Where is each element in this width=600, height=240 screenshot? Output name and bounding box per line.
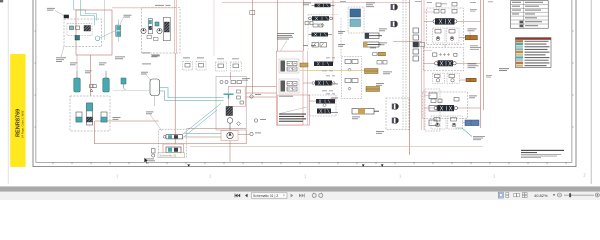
- toolbar background: [0, 192, 600, 200]
- label tank: [141, 72, 148, 75]
- svg-text:Schematic 01 | Z: Schematic 01 | Z: [253, 194, 278, 198]
- wire to pilot trunks: [393, 41, 422, 43]
- label aux cluster: [146, 112, 162, 132]
- quick coupler block: [378, 52, 386, 56]
- sheet inner border frame: [36, 0, 572, 162]
- station 3 pilot caps: [431, 98, 459, 103]
- relay valve inner box: [67, 24, 92, 36]
- relief bank valve 1: [312, 81, 335, 86]
- relay valve group box: [64, 19, 102, 47]
- page right edge: [590, 0, 592, 184]
- label relay valve: [47, 8, 55, 11]
- layout two-up icon: [514, 193, 520, 196]
- steering valve 1: [312, 4, 335, 8]
- top-left viewport corner: [0, 0, 3, 2]
- station 3 sub box b: [448, 116, 463, 129]
- label cylinder 1: [379, 29, 387, 32]
- relay drain gray wire: [104, 0, 106, 40]
- pump feed from charging box: [112, 7, 174, 9]
- border side ticks: [34, 31, 573, 127]
- label acc pump gp: [56, 57, 66, 62]
- coupler tan 1: [365, 69, 379, 74]
- toolbar prev-page button: [245, 194, 248, 198]
- return trunk pair x481: [481, 0, 484, 128]
- aux cluster valve 2: [166, 147, 181, 153]
- toolbar first-page button: [235, 194, 240, 198]
- brake spool left: [76, 112, 82, 122]
- manifold 2 feed wires: [424, 63, 481, 80]
- station 1 sub box b: [447, 28, 459, 43]
- valve column dashed enclosure: [308, 15, 338, 51]
- svg-text:1': 1': [583, 173, 586, 178]
- solenoid column labels: [322, 58, 335, 95]
- layout continuous icon: [506, 193, 509, 198]
- pilot shutoff small valve: [121, 78, 126, 84]
- relay spool: [84, 26, 91, 32]
- pilot supply trunk wire: [251, 0, 253, 94]
- label column mid: [338, 31, 345, 47]
- station 2 pilot caps: [432, 53, 457, 56]
- orifice chain: [413, 28, 419, 61]
- layout two-up-continuous icon: [522, 193, 527, 198]
- pilot valve group 2: [345, 79, 358, 91]
- signal wire x333: [332, 0, 334, 63]
- station 1 main spool: [433, 18, 457, 24]
- zoom out button: [558, 193, 562, 197]
- relay solenoid b: [76, 26, 80, 30]
- sheet note block: [521, 150, 564, 158]
- return trunk wire: [276, 0, 278, 51]
- inline fitting on pilot trunk: [250, 11, 255, 15]
- supply trunk wire x303: [302, 0, 304, 51]
- label connectors: [183, 57, 204, 60]
- label station 2: [468, 64, 479, 69]
- relay label marker box: [64, 15, 69, 19]
- brake small parts: [237, 90, 244, 104]
- pilot manifold dashed box: [341, 57, 361, 99]
- label station 3: [469, 96, 477, 99]
- steering valve 2: [309, 16, 333, 20]
- relief settings lower box: [278, 95, 310, 125]
- label charging boxes: [142, 53, 160, 65]
- relief valve group 2: [279, 79, 299, 93]
- station 2 sub box a: [432, 73, 444, 83]
- charge pump feeds: [185, 132, 222, 134]
- parts table: [511, 1, 549, 29]
- brake shuttle circle: [227, 118, 233, 124]
- drive motor 2: [391, 21, 398, 27]
- cylinder 4: [352, 109, 379, 115]
- relief bank valve 3: [317, 109, 331, 114]
- note text block center: [277, 33, 294, 51]
- svg-text:Schematic 01: Schematic 01: [160, 153, 177, 157]
- port node 1: [250, 95, 253, 98]
- station 2 sub box b: [447, 73, 459, 83]
- steering valve 3: [309, 33, 333, 37]
- bottom-left aux cluster enclosure: [159, 129, 187, 157]
- label 13a 13b: [303, 44, 316, 47]
- accumulator 2: [105, 71, 107, 78]
- coupler tan 2: [366, 87, 380, 92]
- cylinder 1: [365, 33, 382, 39]
- return line bottom run: [94, 121, 246, 144]
- fan motor box: [386, 98, 409, 130]
- station 2 main spool: [435, 60, 457, 66]
- label pump top: [155, 4, 171, 7]
- station 1 coupler tan: [465, 35, 477, 39]
- aux station box right: [425, 89, 440, 131]
- pump control valve: [148, 19, 152, 34]
- label cylinder 4: [352, 117, 360, 120]
- pilot trunk pair x422: [422, 0, 425, 130]
- drive motor 1: [391, 4, 398, 10]
- pump small fittings: [147, 36, 158, 41]
- pump pressure riser: [174, 53, 176, 144]
- hydraulic tank: [150, 79, 160, 96]
- relief bank wires: [303, 83, 336, 101]
- color legend table: [516, 38, 552, 68]
- check valve pair left: [312, 43, 327, 48]
- pump teal port: [155, 22, 159, 26]
- pilot valve group 1: [345, 60, 358, 72]
- label priority: [366, 3, 375, 8]
- pilot trunk fitting: [420, 43, 425, 47]
- label port nodes: [255, 94, 266, 133]
- priority valve lower box: [350, 19, 361, 27]
- toolbar rotate-ccw button: [312, 192, 316, 197]
- station 2 coupler tan: [466, 78, 476, 81]
- label cylinder 2: [379, 43, 387, 46]
- label near drain: [473, 136, 485, 140]
- sheet zone numerals: [116, 173, 586, 179]
- label fan box: [376, 131, 384, 134]
- station 3 main spool: [434, 105, 457, 111]
- charging riser wire: [90, 55, 92, 96]
- priority dashed enclosure: [348, 7, 364, 33]
- tank dashed trunk pair: [403, 0, 406, 129]
- zoom in button: [595, 193, 599, 197]
- station pilot stubs: [424, 12, 434, 96]
- layout single-page icon (active): [498, 192, 503, 198]
- manifold 1 feed wires: [424, 21, 481, 47]
- relay valve pilot wires (teal): [74, 0, 97, 26]
- brake spool right: [101, 112, 107, 122]
- label connectors 3-4: [217, 58, 239, 61]
- small fitting pair: [377, 61, 387, 65]
- drain leader diagonal: [455, 128, 472, 137]
- station connector box 4: [231, 62, 242, 71]
- toolbar page dropdown: [252, 193, 288, 198]
- label pump bottom: [151, 55, 160, 58]
- zoom dropdown caret: [553, 194, 555, 196]
- relief leader diagonal: [280, 107, 307, 114]
- station connector box 2: [196, 62, 206, 71]
- relief settings text block: [279, 114, 306, 122]
- fan motor 2: [392, 118, 399, 124]
- station 1 pilot caps: [434, 10, 457, 14]
- label brake box: [113, 117, 121, 120]
- bank valves dashed enclosure: [309, 95, 336, 116]
- pump main spool: [163, 17, 170, 40]
- label pilot filter: [120, 15, 132, 24]
- page left edge: [7, 0, 9, 184]
- fan motor 1: [392, 104, 399, 110]
- top rail wire: [222, 2, 410, 4]
- label cylinder 3: [376, 72, 392, 86]
- manifold 3 feed wires: [424, 108, 481, 123]
- misc right column labels: [470, 9, 492, 77]
- control valve station 3 enclosure: [423, 92, 468, 119]
- station connector box 3: [216, 62, 227, 71]
- label filter bottom: [115, 57, 125, 60]
- acc to tank wire: [113, 90, 150, 92]
- toolbar rotate-cw button: [319, 192, 323, 197]
- brake diamond: [237, 122, 241, 126]
- parking brake valve box: [70, 96, 110, 131]
- station 1 sub box a: [433, 28, 445, 43]
- station connector box 1: [183, 62, 193, 71]
- brake spool center: [87, 103, 93, 125]
- flow divider row: [300, 63, 308, 67]
- relief valve group 1: [279, 59, 299, 73]
- top margin labels: [340, 1, 493, 4]
- teal pilot diagonal 2: [183, 110, 217, 138]
- acc charge fitting: [90, 85, 97, 92]
- accumulator 1: [76, 71, 78, 78]
- small comp row b: [313, 24, 324, 28]
- control valve station 1 enclosure: [427, 8, 464, 45]
- relief settings box (red): [276, 51, 303, 125]
- brake control valve box: [216, 76, 246, 130]
- label aux bottom: [146, 159, 155, 162]
- label acc 2: [99, 63, 107, 66]
- relay check valve: [75, 36, 80, 41]
- footnote text right: [499, 68, 509, 71]
- label station 1 coupler: [468, 29, 477, 36]
- brake inner red box: [228, 86, 245, 106]
- teal pilot diagonal 1: [183, 104, 221, 135]
- pilot filter: [116, 25, 121, 36]
- brake valve teal tee: [224, 94, 234, 99]
- toolbar divider strip: [0, 186, 600, 191]
- label acc mid: [85, 71, 92, 74]
- border alignment ticks bottom: [53, 162, 566, 164]
- port node 2: [254, 119, 257, 122]
- station 3 coupler blue: [465, 120, 479, 126]
- pump group box: [142, 8, 181, 53]
- control valve station 2 enclosure: [423, 47, 463, 71]
- pump drain to border: [229, 141, 231, 162]
- pump out wire: [238, 134, 250, 136]
- svg-text:40.82%: 40.82%: [534, 193, 548, 198]
- aux drain fitting: [152, 149, 156, 158]
- signal wire x307: [307, 51, 309, 125]
- pump outlet riser: [213, 0, 215, 56]
- brake solenoid pair: [220, 80, 242, 83]
- pump circle 2: [157, 28, 162, 33]
- pump circle 1: [141, 28, 146, 33]
- brake outlet wires: [231, 72, 277, 97]
- station 3 sub box a: [431, 116, 446, 129]
- brake valve spool: [226, 107, 233, 116]
- cylinder 2: [364, 42, 382, 47]
- label steering valve 1: [303, 3, 311, 6]
- sheet outer border frame: [33, 0, 576, 167]
- relay solenoid a: [70, 26, 74, 30]
- priority valve blue box: [350, 9, 361, 17]
- relief mid label: [279, 95, 293, 98]
- label acc 1: [70, 63, 78, 66]
- pilot orifice circle: [95, 36, 100, 41]
- station 1 top fittings: [436, 3, 457, 7]
- relief bank valve 2: [316, 99, 335, 104]
- svg-text:RENR8769: RENR8769: [15, 109, 21, 137]
- tank drain stub: [154, 96, 156, 107]
- svg-text:24 Page, Color 2, W08: 24 Page, Color 2, W08: [21, 110, 25, 138]
- mouse cursor: [144, 158, 148, 164]
- aux cluster valve 1: [163, 135, 182, 139]
- label relief bank: [331, 84, 338, 113]
- pump riser pair: [174, 0, 176, 53]
- port node 3: [250, 132, 253, 135]
- aux station valves: [429, 93, 437, 126]
- aux cluster red box: [163, 144, 184, 155]
- border zone marker diamonds: [187, 164, 190, 166]
- small comp row a: [305, 22, 313, 25]
- yellow bookmark strip: [10, 54, 25, 167]
- pressure trunk x410: [409, 0, 411, 155]
- charge pump circle: [227, 132, 233, 138]
- yellow pilot wire: [300, 70, 365, 72]
- zoom slider: [564, 194, 594, 196]
- label lines group: [470, 46, 481, 50]
- tank supply wires teal: [160, 88, 224, 101]
- label brake top: [242, 78, 250, 81]
- toolbar next-page button: [291, 194, 294, 198]
- brake feed wire: [95, 120, 159, 122]
- relief diamond: [323, 103, 327, 107]
- accumulator charging valve box (red): [76, 10, 112, 55]
- toolbar last-page button: [299, 194, 304, 198]
- case drain dashed trunk: [340, 18, 342, 58]
- cursor tooltip box: [158, 153, 185, 158]
- charge pump box: [221, 131, 238, 141]
- label under coupler: [370, 47, 376, 50]
- long faint drain line: [190, 145, 483, 147]
